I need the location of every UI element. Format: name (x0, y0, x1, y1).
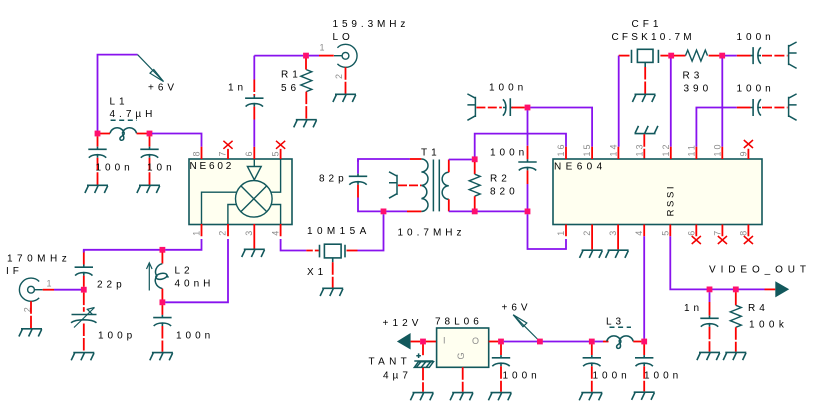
ground under X1 (320, 288, 343, 296)
svg-text:10: 10 (712, 142, 722, 156)
svg-text:L2: L2 (175, 266, 194, 277)
node R1 top (303, 53, 309, 59)
wire LO rail (254, 55, 303, 57)
wire 82p top rail to T1 (358, 159, 410, 162)
ground under 100n L2 (150, 353, 173, 361)
svg-text:100n: 100n (489, 83, 527, 94)
svg-text:11: 11 (686, 143, 696, 156)
op-amp U1 NE602 body (189, 159, 292, 225)
wire LO pin2 to ground (345, 67, 347, 93)
NE602 internal buffer triangle (247, 159, 261, 180)
svg-text:1: 1 (556, 229, 566, 236)
svg-text:13: 13 (634, 142, 644, 156)
wire R2 top to pin16 rail (475, 134, 566, 157)
NE602 internal pin wires (202, 159, 281, 224)
svg-text:9: 9 (738, 149, 748, 156)
ground under R4 (723, 352, 746, 360)
wire rail to L3 (595, 341, 603, 343)
wire bottom rail to NE604 pin 1 (528, 214, 567, 249)
ground under R1 (294, 120, 317, 128)
wire X1 to ground (332, 262, 334, 287)
L2 adjust arrow (147, 263, 153, 291)
ground under 100p (71, 353, 94, 361)
wire IF pin2 to ground (30, 301, 32, 328)
NE602 internal mixer circle (236, 181, 273, 218)
node L3 right (641, 339, 647, 345)
svg-text:NE602: NE602 (190, 161, 235, 172)
svg-text:100k: 100k (749, 320, 788, 331)
svg-text:1: 1 (47, 279, 54, 289)
ground under 78L06 (450, 393, 473, 401)
svg-text:1n: 1n (684, 303, 703, 314)
svg-text:100n: 100n (490, 148, 528, 159)
svg-text:56: 56 (281, 83, 300, 94)
ground NE604 pin 3 (606, 250, 629, 258)
op-amp U2 NE604 body (553, 159, 762, 225)
ground under 100n reg (488, 393, 511, 401)
svg-text:O: O (472, 336, 481, 346)
svg-text:6: 6 (686, 229, 696, 236)
svg-text:14: 14 (608, 142, 618, 156)
wire NE602 pin1 rail (165, 239, 201, 250)
svg-text:82p: 82p (319, 174, 348, 185)
pin stubs NE602 bottom (202, 224, 281, 249)
svg-text:100p: 100p (98, 331, 136, 342)
wire IF pin1 (43, 289, 54, 291)
ground under LO (333, 94, 356, 102)
svg-text:RSSI: RSSI (665, 184, 676, 217)
node bottom rail (525, 209, 531, 215)
svg-text:3: 3 (608, 229, 618, 236)
ground under TANT (410, 393, 433, 401)
node 1n video (707, 287, 713, 293)
svg-text:100n: 100n (503, 371, 541, 382)
svg-text:15: 15 (582, 142, 592, 156)
connector bracket top right (789, 42, 797, 68)
svg-text:1n: 1n (228, 83, 247, 94)
wire +6V rail (504, 341, 589, 343)
wire CF1 left to NE604 pin 14 (618, 56, 620, 147)
svg-text:CF1: CF1 (632, 19, 663, 30)
svg-text:G: G (456, 350, 466, 359)
node R2 top (472, 156, 478, 162)
svg-text:6: 6 (244, 149, 254, 156)
svg-text:4µ7: 4µ7 (383, 371, 412, 382)
ground under 1n (697, 352, 720, 360)
svg-text:IF: IF (6, 266, 23, 277)
capacitor 10n (149, 136, 151, 146)
svg-text:100n: 100n (737, 84, 775, 95)
svg-text:3: 3 (244, 229, 254, 236)
svg-text:T1: T1 (421, 148, 441, 159)
svg-text:390: 390 (684, 84, 713, 95)
wire NE602 pin4 to X1 (281, 239, 307, 251)
svg-text:78L06: 78L06 (435, 317, 483, 328)
node R2 bottom (472, 209, 478, 215)
svg-text:L1: L1 (110, 97, 129, 108)
port +12V arrow (397, 333, 411, 350)
node +6V arrow (537, 339, 543, 345)
svg-text:+12V: +12V (383, 318, 423, 329)
wire node to NE604 pin 12 (670, 58, 672, 146)
pin stubs NE604 top (566, 147, 748, 159)
svg-text:4: 4 (634, 229, 644, 236)
node L1 left (95, 131, 101, 137)
svg-text:R4: R4 (748, 303, 769, 314)
svg-text:170MHz: 170MHz (7, 254, 71, 265)
svg-text:2: 2 (218, 229, 228, 236)
node L2 bottom (160, 299, 166, 305)
svg-text:X1: X1 (307, 267, 327, 278)
wire L2 bottom to NE602 pin 2 (165, 239, 228, 302)
svg-text:100n: 100n (593, 371, 631, 382)
svg-text:159.3MHz: 159.3MHz (333, 19, 410, 30)
node L1 right (147, 131, 153, 137)
wire L1 right to NE602 pin 8 (152, 134, 202, 147)
pin stubs NE602 top (202, 147, 281, 159)
svg-text:CFSK10.7M: CFSK10.7M (612, 32, 695, 43)
supply bar above NE604 pin 13 (635, 126, 658, 134)
svg-text:8: 8 (191, 149, 201, 156)
ground NE604 pin 2 (580, 250, 603, 258)
ground under CF1 (632, 94, 655, 102)
capacitor 100n (L1 left) (97, 136, 99, 146)
wire NE604 pin 4 to L3 node (643, 236, 645, 338)
wire +6V top rail (98, 55, 138, 131)
svg-text:I: I (443, 336, 448, 346)
svg-text:VIDEO_OUT: VIDEO_OUT (709, 265, 811, 276)
wire X1 node to T1 bottom (386, 210, 407, 212)
node R3 right / pin10 (719, 53, 725, 59)
svg-text:100n: 100n (737, 32, 775, 43)
ground NE602 pin 3 (242, 249, 265, 257)
svg-text:10n: 10n (147, 163, 176, 174)
wire T1 secondary bottom rail (449, 210, 525, 212)
svg-text:+6V: +6V (148, 83, 178, 94)
svg-text:+6V: +6V (502, 303, 532, 314)
node X1 (381, 209, 387, 215)
svg-text:1: 1 (320, 43, 327, 53)
ground under 100n mid (579, 393, 602, 401)
node pin15 (525, 105, 531, 111)
connector T1 primary tap bracket (389, 172, 397, 198)
svg-text:NE604: NE604 (554, 162, 607, 173)
svg-text:R2: R2 (490, 174, 511, 185)
node L2 top (160, 247, 166, 253)
svg-text:2: 2 (334, 72, 344, 79)
ground under 100n L3 (632, 392, 655, 400)
svg-text:100n: 100n (96, 163, 134, 174)
node CF1 right / pin12 (668, 53, 674, 59)
node TANT (420, 339, 426, 345)
ground under 10n (137, 185, 160, 193)
wire 22p top rail (84, 250, 160, 253)
svg-text:R1: R1 (281, 70, 302, 81)
svg-text:10.7MHz: 10.7MHz (398, 228, 466, 239)
svg-text:2: 2 (582, 229, 592, 236)
node 100n reg (498, 339, 504, 345)
connector bracket lower right (789, 94, 797, 120)
ground under 100n (85, 185, 108, 193)
node IF (81, 287, 87, 293)
wire T1 secondary top rail (449, 159, 472, 161)
power +6V arrow top-left (138, 55, 164, 82)
svg-text:1: 1 (191, 229, 201, 236)
svg-text:100n: 100n (176, 331, 214, 342)
svg-text:L3: L3 (606, 317, 625, 328)
svg-text:R3: R3 (683, 71, 704, 82)
svg-text:16: 16 (556, 142, 566, 156)
svg-text:40nH: 40nH (175, 279, 215, 290)
svg-text:7: 7 (712, 229, 722, 236)
node 100n mid (589, 339, 595, 345)
svg-text:5: 5 (660, 229, 670, 236)
node R4 video (733, 287, 739, 293)
svg-text:100n: 100n (644, 371, 682, 382)
svg-text:4.7µH: 4.7µH (110, 109, 157, 120)
wire 78L06 ground (462, 367, 464, 392)
svg-text:12: 12 (661, 142, 671, 156)
svg-text:7: 7 (218, 149, 228, 156)
svg-text:22p: 22p (97, 280, 126, 291)
port VIDEO_OUT arrow (775, 281, 789, 297)
power +6V arrow mid (513, 315, 540, 342)
svg-text:820: 820 (490, 187, 519, 198)
svg-text:5: 5 (270, 149, 280, 156)
ground under IF (19, 329, 42, 337)
wire L1 stubs (100, 133, 147, 135)
wire node to NE604 pin 15 (530, 108, 592, 147)
svg-text:LO: LO (333, 32, 354, 43)
svg-text:10M15A: 10M15A (307, 226, 371, 237)
wire 78L06 out (489, 341, 499, 343)
wire NE604 pin 5 to video rail (670, 236, 764, 289)
wire node to NE604 pin 10 (721, 58, 723, 146)
wire CF1 center to ground (644, 67, 646, 94)
svg-text:4: 4 (270, 229, 280, 236)
svg-text:8: 8 (738, 229, 748, 236)
pin stubs NE604 bottom (566, 225, 748, 250)
svg-text:TANT: TANT (369, 357, 412, 368)
T1 secondary stubs (448, 160, 450, 212)
